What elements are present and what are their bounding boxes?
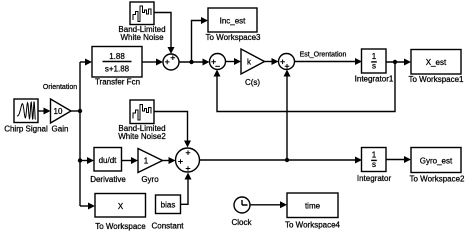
source block Band-Limited White Noise [118,2,165,42]
wire branch to Transfer Fcn [80,59,92,66]
signal label Est_Orentation [300,52,347,59]
source block Band-Limited White Noise2 [118,100,166,141]
junction dot at Derivative branch [78,158,82,162]
svg-text:C(s): C(s) [245,78,260,87]
sum junction Sum2 (+-) [210,54,226,70]
svg-text:bias: bias [161,201,176,210]
svg-text:10: 10 [54,107,63,116]
source block Chirp Signal [4,99,48,134]
svg-text:Orientation: Orientation [43,84,77,91]
wire Integrator1 to X_est [386,59,411,66]
block Derivative du/dt [90,148,126,185]
svg-text:Constant: Constant [151,222,184,231]
sum junction Sum3 (++) [279,54,295,70]
block Gyro_est To Workspace2 [410,148,466,184]
wire Integrator to Gyro_est [386,156,411,163]
svg-text:s: s [372,62,376,71]
wire branch up to Inc_est [192,17,209,62]
sum junction Sum1 (++) [163,54,179,70]
wire Transfer Fcn to Sum1 [142,59,163,66]
svg-text:Gain: Gain [52,125,69,134]
svg-text:To Workspace1: To Workspace1 [409,75,465,84]
wire Sum1 to Sum2 [179,59,210,66]
block bias Constant [151,195,184,231]
wire Derivative to Gyro [122,157,139,164]
svg-text:Gyro_est: Gyro_est [420,157,453,166]
feedback wire Integrator1 to Sum2 minus [214,62,396,112]
wire branch to X workspace [80,203,95,210]
svg-text:To Workspace3: To Workspace3 [206,33,262,42]
source block Clock [231,197,252,227]
block Integrator 1/s [357,148,392,183]
wire Sum3 to Integrator1 net Est_Orentation [295,58,363,65]
block Transfer Fcn 1.88/(s+1.88) [92,47,142,87]
svg-text:To Workspace: To Workspace [95,222,146,231]
wire Gyro to Sum4 [163,157,176,164]
wire Chirp Signal to Gain [38,108,51,115]
junction dot Sum1 output branch [189,60,193,64]
svg-text:Chirp Signal: Chirp Signal [4,125,48,134]
wire gain C(s) to Sum3 [265,58,279,65]
block X To Workspace [95,194,146,232]
wire branch up to Sum3 plus [284,70,291,161]
gain block Gain value 10 [51,99,72,134]
wire Sum2 to gain C(s) [226,58,242,65]
wire Gain output to branch trunk [71,62,80,206]
wire branch to Derivative [80,157,94,164]
svg-text:Derivative: Derivative [90,175,126,184]
sum junction Sum4 (+++) [176,148,200,172]
wire Band-Limited White Noise to Sum1 [154,13,175,55]
svg-text:du/dt: du/dt [99,156,118,165]
block Integrator1 1/s [355,49,394,83]
svg-text:Integrator1: Integrator1 [355,74,394,83]
svg-text:Inc_est: Inc_est [220,17,247,26]
wire Clock to time workspace [250,201,287,208]
block time To Workspace4 [285,193,341,229]
svg-text:Transfer Fcn: Transfer Fcn [95,78,140,87]
block X_est To Workspace1 [409,50,465,84]
svg-text:1: 1 [372,52,377,61]
junction dot Sum4 output branch [285,158,289,162]
block Inc_est To Workspace3 [206,8,262,42]
svg-text:White Noise: White Noise [120,33,164,42]
svg-text:Gyro: Gyro [141,175,159,184]
wire Band-Limited White Noise2 to Sum4 [154,112,191,148]
svg-text:1: 1 [372,151,377,160]
svg-text:X: X [118,202,124,211]
junction dot at Gain output [78,109,82,113]
wire bias to Sum4 [181,173,192,205]
svg-text:Integrator: Integrator [357,174,392,183]
svg-text:To Workspace4: To Workspace4 [285,220,341,229]
svg-text:1.88: 1.88 [109,52,125,61]
signal label Orientation [43,84,77,91]
gain block k labelled C(s) [241,49,265,87]
svg-text:s+1.88: s+1.88 [105,65,130,74]
svg-text:X_est: X_est [426,58,447,67]
gain block Gyro value 1 [138,149,163,185]
svg-text:White Noise2: White Noise2 [118,132,166,141]
junction dot Integrator1 output [393,60,397,64]
svg-text:Est_Orentation: Est_Orentation [300,52,347,59]
svg-text:To Workspace2: To Workspace2 [410,174,466,183]
wire Sum4 to Integrator [200,157,363,164]
svg-text:1: 1 [144,156,149,165]
svg-text:time: time [305,202,321,211]
svg-text:k: k [247,58,252,67]
svg-text:s: s [372,160,376,169]
svg-text:Clock: Clock [231,218,252,227]
